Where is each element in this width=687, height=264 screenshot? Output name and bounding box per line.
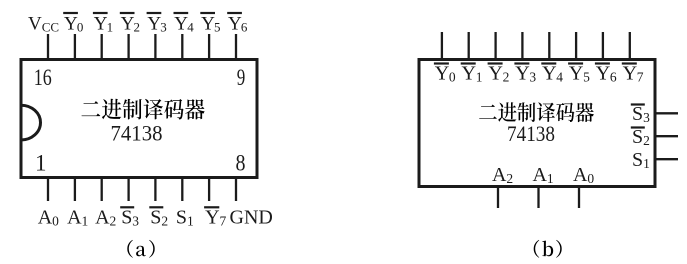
pin label Y4 (active-low output, U1 pin 11) xyxy=(174,13,195,35)
svg-text:CC: CC xyxy=(42,20,59,35)
svg-text:GND: GND xyxy=(230,206,273,228)
svg-text:6: 6 xyxy=(241,20,248,35)
U2 output lead Y4 xyxy=(548,32,550,60)
U2 address lead A1 xyxy=(537,187,539,209)
svg-text:0: 0 xyxy=(52,213,59,228)
U1 pin 8 lead (GND) xyxy=(235,178,237,202)
svg-text:5: 5 xyxy=(214,20,221,35)
svg-text:A: A xyxy=(533,164,548,186)
pin label S1 (enable S1, U1 pin 6) xyxy=(176,206,194,228)
pin label Y6 (active-low output, U1 pin 9) xyxy=(227,13,248,35)
U2 device name label 二进制译码器 xyxy=(479,102,594,122)
svg-text:Y: Y xyxy=(623,63,637,85)
U1 pin 13 lead (Y2) xyxy=(127,34,129,60)
U2 enable lead S2 xyxy=(655,135,678,137)
port label Y1 (active-low output, diagram b) xyxy=(461,63,483,85)
svg-text:V: V xyxy=(28,14,42,35)
pin-1 index notch on left edge of U1 xyxy=(21,105,41,140)
svg-text:1: 1 xyxy=(187,213,194,228)
svg-text:A: A xyxy=(38,206,53,228)
pin label A2 (address input A2, U1 pin 3) xyxy=(95,206,116,228)
pin label Y0 (active-low output, U1 pin 15) xyxy=(63,13,83,35)
U2 address lead A0 xyxy=(578,187,580,209)
U1 pin 10 lead (Y5) xyxy=(208,34,210,60)
svg-text:Y: Y xyxy=(435,63,449,85)
U2 output lead Y6 xyxy=(602,32,604,60)
port label S2 (enable, active low, diagram b) xyxy=(631,126,650,148)
svg-text:S: S xyxy=(632,149,643,171)
U1 pin 9 lead (Y6) xyxy=(235,34,237,60)
svg-text:1: 1 xyxy=(547,171,554,186)
svg-text:9: 9 xyxy=(237,65,246,90)
svg-text:Y: Y xyxy=(462,63,476,85)
svg-text:0: 0 xyxy=(587,171,594,186)
svg-text:Y: Y xyxy=(596,63,610,85)
pin label Y5 (active-low output, U1 pin 10) xyxy=(200,13,220,35)
port label A0 (address input, diagram b) xyxy=(573,164,594,186)
port label S1 (enable, diagram b) xyxy=(632,149,650,171)
svg-text:S: S xyxy=(632,126,643,148)
svg-text:2: 2 xyxy=(503,70,510,85)
pin label VCC (U1 pin 16) xyxy=(28,14,59,35)
svg-text:2: 2 xyxy=(110,213,117,228)
port label Y6 (active-low output, diagram b) xyxy=(595,63,617,85)
port label Y4 (active-low output, diagram b) xyxy=(541,63,563,85)
svg-text:2: 2 xyxy=(161,213,168,228)
U2 output lead Y0 xyxy=(441,32,443,60)
U1 device name label 二进制译码器 xyxy=(82,99,205,120)
svg-text:2: 2 xyxy=(643,133,650,148)
port label Y0 (active-low output, diagram b) xyxy=(434,63,456,85)
U2 output lead Y7 xyxy=(629,32,631,60)
U2 output lead Y5 xyxy=(575,32,577,60)
U1 pin 11 lead (Y4) xyxy=(181,34,183,60)
svg-text:Y: Y xyxy=(569,63,583,85)
pin label S2 (enable S2 (active low), U1 pin 5) xyxy=(149,206,168,228)
caption (b) xyxy=(534,240,562,258)
svg-text:Y: Y xyxy=(201,14,215,35)
svg-text:74138: 74138 xyxy=(111,121,163,146)
svg-text:S: S xyxy=(150,206,161,228)
U1 pin 5 lead (S2n) xyxy=(154,178,156,202)
svg-text:Y: Y xyxy=(94,14,108,35)
U1 pin 14 lead (Y1) xyxy=(101,34,103,60)
U2 output lead Y1 xyxy=(468,32,470,60)
svg-text:1: 1 xyxy=(643,156,650,171)
U1 pin 3 lead (A2) xyxy=(101,178,103,202)
svg-text:1: 1 xyxy=(476,70,483,85)
port label Y5 (active-low output, diagram b) xyxy=(568,63,590,85)
U1 pin 1 lead (A0) xyxy=(47,178,49,202)
svg-text:Y: Y xyxy=(542,63,556,85)
svg-text:16: 16 xyxy=(34,65,52,90)
svg-text:5: 5 xyxy=(583,70,590,85)
svg-text:8: 8 xyxy=(236,151,246,176)
pin label Y2 (active-low output, U1 pin 13) xyxy=(120,13,140,35)
svg-text:0: 0 xyxy=(77,20,84,35)
IC U1 74138 DIP-16 body (diagram a) xyxy=(21,60,257,178)
svg-text:Y: Y xyxy=(515,63,529,85)
svg-text:1: 1 xyxy=(107,20,114,35)
U2 enable lead S1 xyxy=(655,158,678,160)
svg-text:Y: Y xyxy=(174,14,188,35)
pin label Y3 (active-low output, U1 pin 12) xyxy=(147,13,167,35)
IC U2 74138 logic-symbol box (diagram b) xyxy=(419,60,655,187)
svg-text:Y: Y xyxy=(64,14,78,35)
svg-text:2: 2 xyxy=(506,171,513,186)
svg-text:3: 3 xyxy=(643,110,650,125)
U1 pin 7 lead (Y7) xyxy=(208,178,210,202)
svg-text:2: 2 xyxy=(134,20,141,35)
svg-text:1: 1 xyxy=(35,151,47,176)
svg-text:S: S xyxy=(176,206,187,228)
svg-text:A: A xyxy=(95,206,110,228)
pin label Y7 (output Y7 (active low), U1 pin 7) xyxy=(204,206,226,228)
svg-text:A: A xyxy=(67,206,82,228)
U2 enable lead S3 xyxy=(655,112,678,114)
svg-text:Y: Y xyxy=(205,206,219,228)
svg-text:0: 0 xyxy=(449,70,456,85)
svg-text:4: 4 xyxy=(556,70,563,85)
pin label S3 (enable S3 (active low), U1 pin 4) xyxy=(120,206,139,228)
port label Y3 (active-low output, diagram b) xyxy=(514,63,536,85)
svg-text:74138: 74138 xyxy=(507,121,555,146)
svg-text:A: A xyxy=(492,164,507,186)
port label Y2 (active-low output, diagram b) xyxy=(488,63,510,85)
svg-text:S: S xyxy=(632,103,643,125)
U1 pin 12 lead (Y3) xyxy=(154,34,156,60)
svg-text:A: A xyxy=(573,164,588,186)
svg-text:7: 7 xyxy=(220,213,227,228)
U1 pin 2 lead (A1) xyxy=(74,178,76,202)
port label A2 (address input, diagram b) xyxy=(492,164,513,186)
svg-text:3: 3 xyxy=(529,70,536,85)
svg-text:4: 4 xyxy=(187,20,194,35)
svg-text:S: S xyxy=(121,206,132,228)
svg-text:1: 1 xyxy=(82,213,89,228)
svg-text:3: 3 xyxy=(160,20,167,35)
U1 pin 15 lead (Y0) xyxy=(74,34,76,60)
U2 output lead Y2 xyxy=(494,32,496,60)
svg-text:7: 7 xyxy=(637,70,644,85)
port label Y7 (active-low output, diagram b) xyxy=(622,63,644,85)
pin label Y1 (active-low output, U1 pin 14) xyxy=(93,13,113,35)
port label A1 (address input, diagram b) xyxy=(533,164,554,186)
svg-text:6: 6 xyxy=(610,70,617,85)
pin label A1 (address input A1, U1 pin 2) xyxy=(67,206,88,228)
U2 output lead Y3 xyxy=(521,32,523,60)
svg-text:Y: Y xyxy=(228,14,242,35)
U2 address lead A2 xyxy=(497,187,499,209)
U1 pin 6 lead (S1) xyxy=(181,178,183,202)
svg-text:Y: Y xyxy=(488,63,502,85)
svg-text:3: 3 xyxy=(132,213,139,228)
svg-text:Y: Y xyxy=(147,14,161,35)
port label S3 (enable, active low, diagram b) xyxy=(631,103,650,125)
U1 pin 16 lead (VCC) xyxy=(47,34,49,60)
U1 pin 4 lead (S3n) xyxy=(127,178,129,202)
caption (a) xyxy=(127,240,154,258)
pin label A0 (address input A0, U1 pin 1) xyxy=(38,206,59,228)
svg-text:Y: Y xyxy=(121,14,135,35)
